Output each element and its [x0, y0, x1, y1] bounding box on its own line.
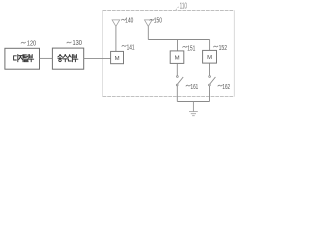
antenna 140: [112, 20, 120, 26]
지: [19, 55, 23, 62]
svg-text:151: 151: [187, 43, 195, 52]
label ~152: [213, 46, 218, 47]
leader for label 110: [176, 6, 179, 10]
wire switch161 down: [176, 86, 178, 102]
svg-text:M: M: [115, 56, 120, 62]
디: [14, 55, 18, 62]
svg-text:141: 141: [127, 43, 135, 52]
svg-text:140: 140: [125, 16, 133, 25]
antenna 150: [145, 20, 153, 26]
M box 141: [111, 51, 124, 63]
wire drop to M151: [177, 40, 179, 51]
joining wire: [177, 101, 209, 103]
svg-text:M: M: [175, 56, 180, 62]
switch 162: [209, 76, 211, 78]
dashed enclosure 110: [103, 11, 235, 97]
label ~141: [122, 45, 127, 46]
ground stem: [192, 102, 194, 112]
label ~151: [183, 46, 188, 47]
svg-text:130: 130: [73, 38, 82, 47]
svg-text:110: 110: [180, 1, 188, 10]
label ~130: [67, 42, 72, 43]
text 디지털부: [14, 55, 34, 62]
wire M152 to switch 162: [209, 63, 211, 75]
wire switch162 down: [209, 86, 211, 102]
신: [68, 55, 72, 62]
wire antenna150 down: [147, 26, 149, 39]
wire 130 to M141: [84, 57, 111, 59]
M box 152: [203, 50, 217, 63]
wire 120-130: [40, 57, 53, 59]
label ~150: [150, 19, 155, 20]
switch 161: [177, 76, 179, 78]
svg-text:152: 152: [219, 43, 227, 52]
부: [73, 55, 78, 62]
털: [24, 55, 28, 62]
부: [29, 55, 34, 62]
wire drop to M152: [209, 40, 211, 51]
svg-text:M: M: [207, 55, 212, 61]
wire M151 to switch 161: [176, 63, 178, 75]
block 120 (digital unit): [5, 48, 40, 69]
svg-text:150: 150: [154, 16, 162, 25]
wire antenna140 to M141: [115, 26, 117, 51]
M box 151: [170, 51, 184, 64]
leader 162: [218, 85, 223, 86]
block 130 (transceiver unit): [52, 48, 83, 69]
송: [58, 55, 62, 62]
branch wire horizontal: [148, 39, 209, 41]
leader 161: [186, 85, 191, 86]
svg-text:161: 161: [191, 82, 199, 91]
label ~120: [21, 42, 26, 43]
svg-text:162: 162: [222, 82, 230, 91]
ground: [189, 112, 198, 116]
svg-text:120: 120: [27, 39, 36, 48]
수: [63, 55, 68, 62]
text 송수신부: [58, 55, 78, 62]
label ~140: [121, 19, 126, 20]
